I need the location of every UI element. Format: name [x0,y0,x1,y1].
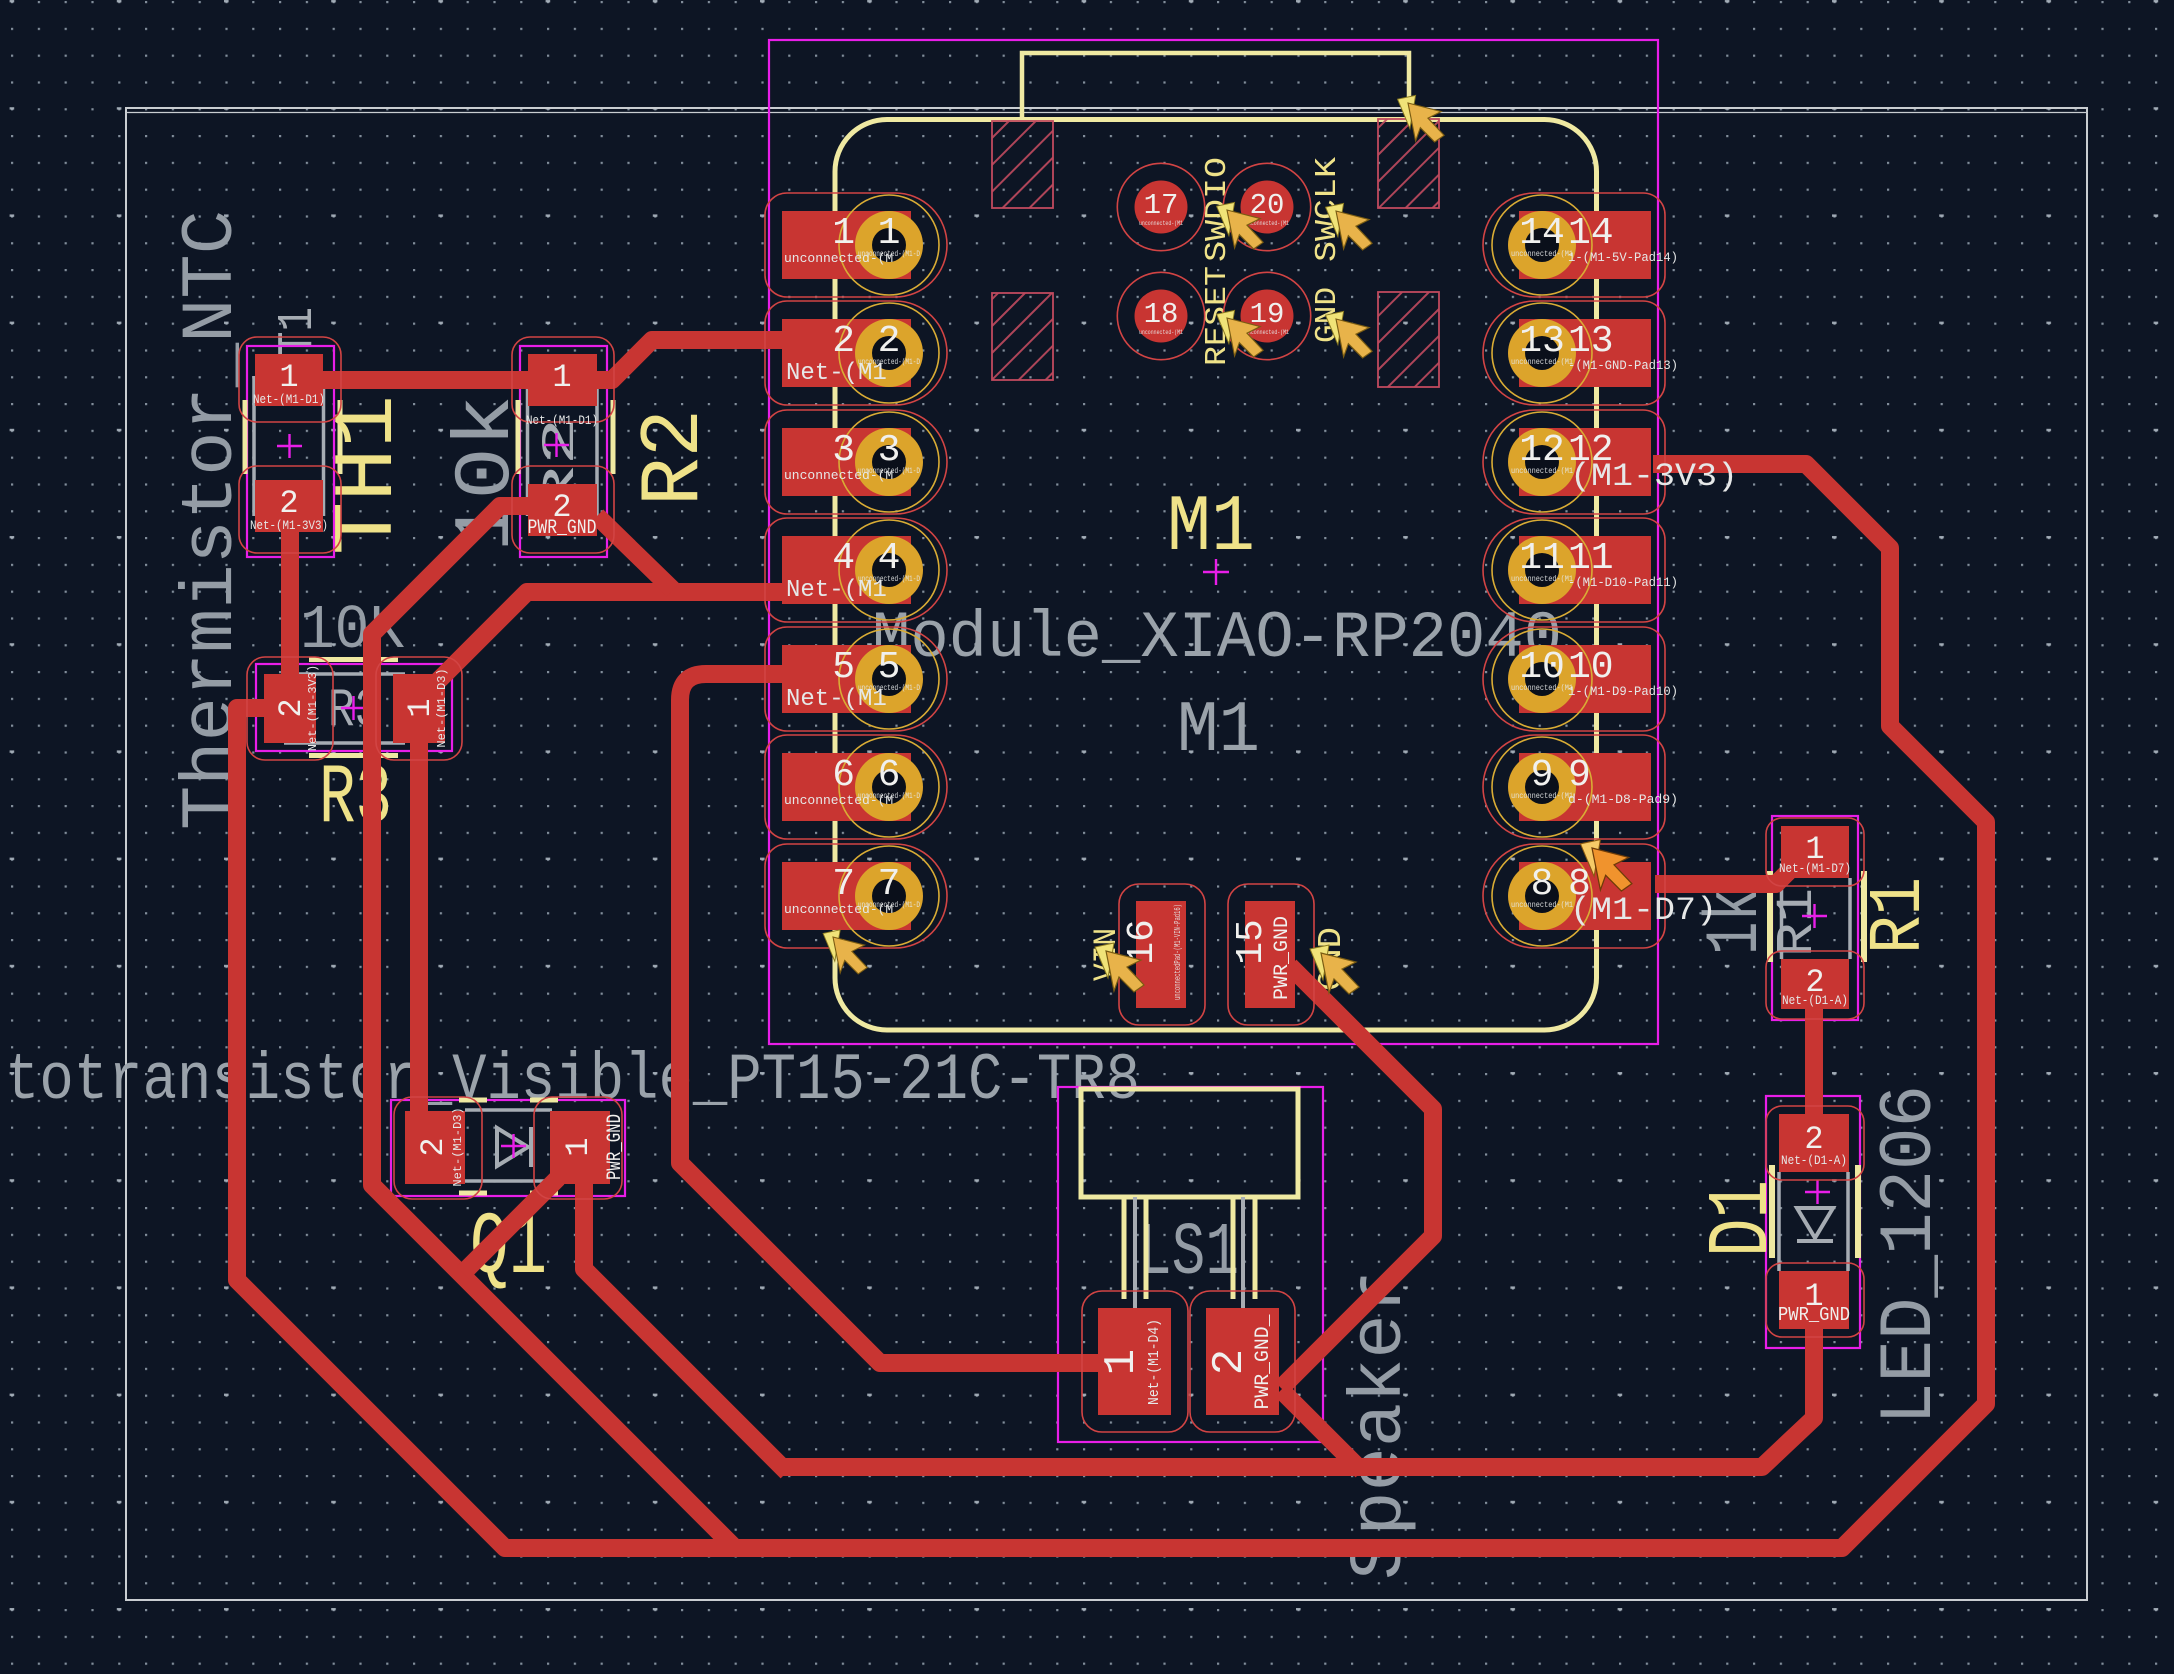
svg-text:Net-(M1-3V3): Net-(M1-3V3) [306,665,320,751]
thermistor TH1 pad 2 [239,466,341,553]
svg-text:13: 13 [1519,320,1565,363]
svg-text:9: 9 [1531,754,1554,797]
resistor R3 silk bars [309,660,398,756]
svg-text:unconnected-(M1-D: unconnected-(M1-D [858,901,920,910]
svg-text:unconnected-(M1-D: unconnected-(M1-D [858,358,920,367]
svg-text:totransistor_Visible_PT15-21C-: totransistor_Visible_PT15-21C-TR8 [5,1043,1140,1118]
wire net M1-D7: module pad8 - R1.1 [1655,858,1802,884]
svg-text:Net-(D1-A): Net-(D1-A) [1782,993,1848,1008]
unconnected marker arrow 9 [1580,840,1631,891]
svg-text:(M1-3V3): (M1-3V3) [1570,458,1738,495]
svg-text:unconnected-(M1: unconnected-(M1 [1511,250,1573,259]
svg-text:unconnected-(M1: unconnected-(M1 [1511,792,1573,801]
svg-text:unconnected-(M1: unconnected-(M1 [1511,358,1573,367]
resistor R2 courtyard [520,346,607,557]
svg-text:PWR_GND: PWR_GND [604,1114,627,1180]
resistor R2 pad 1 [512,337,614,428]
svg-text:unconnected-(M1-D: unconnected-(M1-D [858,684,920,693]
svg-text:unconnected-(M1: unconnected-(M1 [1511,575,1573,584]
speaker LS1 silk legs [1124,1197,1255,1299]
svg-text:1: 1 [552,359,571,396]
svg-text:1: 1 [402,698,439,717]
wire net D1-A: R1.2 - D1.2 [1805,1009,1823,1114]
svg-text:d-(M1-D8-Pad9): d-(M1-D8-Pad9) [1568,792,1678,807]
module M1 pad 4 (left column) [765,518,947,622]
resistor R1 silk bars [1770,871,1864,962]
svg-text:PWR_GND_: PWR_GND_ [1252,1314,1275,1410]
svg-text:R1: R1 [1858,877,1942,954]
unconnected marker arrow 4 [1326,311,1373,358]
svg-text:17: 17 [1144,189,1179,222]
svg-text:2: 2 [1205,1349,1255,1375]
wire net PWR_GND: module pad15 - LS1.2 [1281,966,1433,1388]
svg-text:unconnected-(M1: unconnected-(M1 [1511,901,1573,910]
svg-text:unconnected-(M1: unconnected-(M1 [1511,467,1573,476]
speaker LS1 silk body [1081,1089,1298,1197]
svg-text:1: 1 [279,359,298,396]
svg-text:LED_1206: LED_1206 [1868,1085,1953,1425]
svg-text:4: 4 [878,537,901,580]
svg-text:7: 7 [832,863,855,906]
svg-text:Net-(M1-3V3): Net-(M1-3V3) [250,518,328,533]
wire net M1-D3: module pad4 horizontal [415,592,782,704]
module M1 pad 8 (right column) [1483,844,1717,948]
svg-text:9: 9 [1568,754,1591,797]
svg-text:Net-(M1-D7): Net-(M1-D7) [1779,861,1851,876]
resistor R2 fab outline [528,376,598,516]
LED D1 courtyard [1766,1096,1860,1348]
resistor R1 courtyard [1772,816,1858,1020]
svg-text:12: 12 [1519,429,1565,472]
module M1 pad 10 (right column) [1483,627,1678,731]
keepout hatched zone 2 [992,293,1053,380]
svg-text:7: 7 [878,863,901,906]
svg-text:15: 15 [1230,919,1273,965]
unconnected marker arrow 6 [823,930,867,974]
svg-text:1: 1 [878,212,901,255]
svg-text:2: 2 [273,698,310,717]
svg-text:Net-(D1-A): Net-(D1-A) [1781,1153,1847,1168]
svg-text:-(M1-GND-Pad13): -(M1-GND-Pad13) [1568,358,1678,373]
unconnected marker arrow 5 [1398,95,1445,142]
wire net M1-D1: TH1.1 - R2.1 - module pad2 [290,340,850,380]
unconnected marker arrow 1 [1217,202,1264,249]
svg-text:8: 8 [1531,863,1554,906]
svg-text:5: 5 [878,646,901,689]
wire net PWR_GND: bottom rail to D1.1 [782,1329,1814,1467]
keepout hatched zone 4 [1378,292,1439,387]
module M1 pad 19 (debug pad) [1223,272,1310,359]
svg-text:unconnected-(M1: unconnected-(M1 [1139,329,1183,336]
speaker LS1 courtyard [1058,1087,1323,1442]
svg-text:PWR_GND: PWR_GND [528,517,597,540]
svg-text:10: 10 [1519,646,1565,689]
module M1 pad 13 (right column) [1483,301,1678,405]
LED D1 pad 1 [1766,1263,1864,1337]
module M1 pad 5 (left column) [765,627,947,731]
svg-text:unconnected-(M1-D: unconnected-(M1-D [858,792,920,801]
module M1 silkscreen body outline [835,120,1597,1031]
module M1 pad 11 (right column) [1483,518,1678,622]
wire net PWR_GND: Q1.1 down to rail [584,1184,787,1472]
module M1 pad 15 (PWR_GND) [1228,884,1314,1025]
thermistor TH1 silk bars [245,400,340,474]
module M1 USB connector tab outline [1022,53,1409,121]
resistor R1 fab outline [1782,878,1851,959]
resistor R3 pad 2 [247,657,333,760]
module M1 pad 7 (left column) [765,844,947,948]
wire net 3V3 big loop: R3.2 - left - bottom - right - module pad12 [237,464,1986,1548]
svg-text:1: 1 [1097,1349,1147,1375]
svg-text:R3: R3 [319,752,392,847]
svg-text:2: 2 [279,485,298,522]
unconnected marker arrow 3 [1217,310,1264,357]
phototransistor Q1 fab outline [465,1110,552,1181]
thermistor TH1 pad 1 [239,337,341,422]
LED D1 pad 2 [1766,1106,1864,1180]
svg-text:1: 1 [832,212,855,255]
svg-text:3: 3 [832,429,855,472]
module M1 anchor + [1203,559,1229,585]
thermistor TH1 anchor + [277,434,302,458]
module M1 pad 14 (right column) [1483,193,1678,297]
svg-text:Module_XIAO-RP2040: Module_XIAO-RP2040 [872,601,1562,676]
svg-text:Net-(M1-D3): Net-(M1-D3) [451,1107,465,1186]
svg-text:-(M1-D10-Pad11): -(M1-D10-Pad11) [1568,575,1678,590]
wire net PWR_GND: LS1.2 - bottom rail [1281,1390,1362,1471]
svg-text:TH1: TH1 [322,395,417,555]
svg-text:D1: D1 [1694,1180,1792,1257]
module M1 courtyard [769,40,1658,1044]
svg-text:14: 14 [1568,212,1614,255]
unconnected marker arrow 2 [1326,203,1373,250]
svg-text:1: 1 [560,1137,597,1156]
svg-text:14: 14 [1519,212,1565,255]
LED D1 silk bars [1772,1165,1858,1258]
svg-text:unconnected-(M1: unconnected-(M1 [1511,684,1573,693]
LED D1 fab outline [1779,1172,1848,1271]
svg-text:PWR_GND: PWR_GND [1271,916,1294,1000]
svg-text:Net-(M1-D3): Net-(M1-D3) [435,668,449,747]
svg-text:6: 6 [832,754,855,797]
svg-text:unconnected-(M1-D: unconnected-(M1-D [858,575,920,584]
module M1 pad 6 (left column) [765,735,947,839]
module M1 pad 17 (debug pad) [1117,163,1204,250]
svg-text:6: 6 [878,754,901,797]
module M1 pad 16 (VIN) [1119,884,1205,1025]
svg-text:3: 3 [878,429,901,472]
svg-text:LS1: LS1 [1138,1212,1239,1296]
svg-text:unconnected-(M1-D: unconnected-(M1-D [858,250,920,259]
resistor R2 pad 2 [512,466,614,553]
unconnected marker arrow 7 [1095,943,1144,992]
wire net M1-D3: R3.1 - Q1.2 vertical [419,712,438,1156]
svg-text:unconnected-(M1: unconnected-(M1 [1139,220,1183,227]
svg-text:13: 13 [1568,320,1614,363]
resistor R3 fab outline [284,674,405,743]
svg-text:1-(M1-5V-Pad14): 1-(M1-5V-Pad14) [1568,250,1678,265]
svg-text:M1: M1 [1167,483,1255,574]
phototransistor Q1 anchor + [501,1134,526,1158]
svg-text:4: 4 [832,537,855,580]
svg-text:R2: R2 [628,409,723,506]
svg-text:11: 11 [1519,537,1565,580]
module M1 pad 2 (left column) [765,301,947,405]
svg-text:(M1-D7): (M1-D7) [1570,892,1717,929]
thermistor TH1 courtyard [247,346,334,557]
speaker LS1 pad 2 [1190,1291,1295,1432]
thermistor TH1 fab outline [254,376,324,516]
phototransistor Q1 fab diode symbol [497,1127,531,1167]
LED D1 anchor + [1805,1180,1830,1204]
wire net M1-D4: module pad5 - LS1.1 [680,674,1105,1363]
svg-text:PWR_GND: PWR_GND [1778,1304,1850,1326]
module M1 pad 3 (left column) [765,410,947,514]
LED D1 fab diode symbol [1797,1208,1833,1241]
svg-text:1-(M1-D9-Pad10): 1-(M1-D9-Pad10) [1568,684,1678,699]
resistor R1 pad 2 [1766,951,1864,1019]
module M1 pad 12 (right column) [1483,410,1738,514]
resistor R3 pad 1 [376,657,462,760]
keepout hatched zone 3 [1378,119,1439,208]
svg-text:2: 2 [832,320,855,363]
resistor R1 anchor + [1802,904,1827,928]
resistor R2 silk bars [518,400,613,474]
phototransistor Q1 silk bars [459,1100,558,1193]
svg-text:11: 11 [1568,537,1614,580]
module M1 pad 18 (debug pad) [1117,272,1204,359]
svg-text:10: 10 [1568,646,1614,689]
module M1 pad 9 (right column) [1483,735,1678,839]
keepout hatched zone 1 [992,121,1053,208]
resistor R2 anchor + [544,433,569,457]
module M1 pad 1 (left column) [765,193,947,297]
svg-text:5: 5 [832,646,855,689]
svg-text:R1: R1 [1768,888,1827,957]
svg-text:Net-(M1-D4): Net-(M1-D4) [1146,1319,1163,1405]
svg-text:18: 18 [1144,298,1179,331]
wire net PWR_GND: R2.2 down left loop [372,506,735,1548]
phototransistor Q1 pad 1 [534,1097,627,1199]
svg-text:Net-(M1-D1): Net-(M1-D1) [253,392,325,407]
svg-text:2: 2 [415,1137,452,1156]
phototransistor Q1 pad 2 [394,1097,482,1199]
svg-text:unconnectedPad-(M1-VIN-Pad16): unconnectedPad-(M1-VIN-Pad16) [1173,904,1183,1000]
unconnected marker arrow 8 [1310,945,1359,994]
phototransistor Q1 courtyard [391,1100,625,1196]
speaker LS1 pad 1 [1082,1291,1188,1432]
speaker LS1 fab legs [1135,1197,1243,1310]
wire net M1-D3: R2.2 area diagonal stub [597,516,673,590]
resistor R3 anchor + [341,696,366,720]
wire net PWR_GND: Q1.1 stub to R2.2 trace [463,1178,558,1273]
resistor R1 pad 1 [1766,818,1864,886]
svg-text:2: 2 [878,320,901,363]
svg-text:M1: M1 [1177,690,1260,772]
module M1 pad 20 (debug pad) [1223,163,1310,250]
resistor R3 courtyard [256,664,452,751]
wire net 3V3: TH1.2 - R3.2 [281,506,299,715]
svg-text:T1: T1 [270,307,327,356]
svg-text:unconnected-(M1-D: unconnected-(M1-D [858,467,920,476]
svg-text:Net-(M1-D1): Net-(M1-D1) [526,413,598,428]
